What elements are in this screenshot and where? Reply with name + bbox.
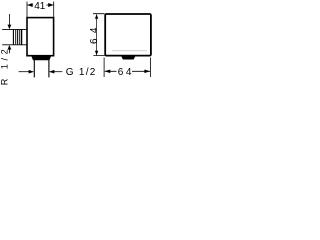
dimension R1/2 upper arrow (down) [8,25,12,30]
dimension 64 horizontal extension lines [104,58,150,78]
front view outlet bump [121,55,136,59]
dimension R1/2 line lower [8,49,10,53]
background [0,0,153,89]
dimension 64 vertical extension lines [93,14,105,56]
wall stub R1/2 bottom line + extension [2,44,27,46]
front view square plate [105,14,151,56]
dimension 64 horizontal right arrow (right) [144,70,150,74]
dimension R1/2 line upper [8,14,10,25]
dimension 64 horizontal text [117,66,133,76]
wall stub R1/2 top line + extension [2,28,27,30]
dimension 41 text [33,1,46,10]
dimension G1/2 left line [19,71,30,73]
dimension 41 right arrow [48,3,53,7]
dimension 64 horizontal line [105,70,150,72]
dimension 41 left arrow [27,3,32,7]
dimension 64 vertical top arrow (up) [95,14,98,18]
dimension G1/2 right line [53,71,62,73]
svg-text:41: 41 [34,1,46,12]
dimension 41 extension lines [27,2,54,18]
dimension 64 horizontal left arrow (left) [105,70,111,74]
dimension 64 vertical line [96,14,98,55]
dimension G1/2 left arrow (right) [29,70,34,74]
svg-text:G 1/2: G 1/2 [66,67,96,78]
side view body [27,18,54,56]
dimension R1/2 lower arrow (up) [8,45,12,50]
wall stub left edge [12,29,14,44]
front view inner bottom line [112,50,147,52]
dimension G1/2 right arrow (left) [49,70,55,74]
wall stub end cap [21,29,23,44]
outlet pipe G1/2 (side view) [34,60,49,77]
dimension 64 vertical bottom arrow (down) [95,51,98,56]
dimension 41 line [27,4,53,6]
outlet collar (side view, filled trapezoid) [31,55,51,60]
svg-text:R 1/2: R 1/2 [0,49,9,85]
wall stub thread hatching [16,30,20,45]
